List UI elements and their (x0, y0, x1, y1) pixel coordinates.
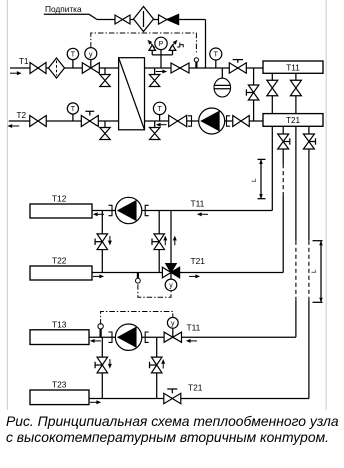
svg-text:Т21: Т21 (191, 256, 206, 266)
control valve M1 with actuator (82, 63, 91, 74)
filter T1 strainer (49, 58, 65, 78)
svg-text:L: L (311, 269, 318, 273)
valve riser return circuit2 (278, 134, 289, 142)
balancing valve branch left circuit3 (97, 357, 108, 365)
gate valve T2 (81, 116, 90, 127)
wire makeup drop (205, 20, 207, 69)
sensor T secondary supply (215, 60, 217, 68)
valve riser supply circuit3 (290, 80, 301, 88)
svg-text:Р: Р (159, 41, 164, 48)
balancing valve branch A (154, 234, 165, 242)
wire branch left circuit2 (101, 211, 103, 273)
node dimension L circuit2 riser (260, 159, 262, 198)
sensor T on T1 (72, 60, 74, 68)
wire T1 supply (10, 67, 119, 69)
svg-text:Т11: Т11 (191, 198, 205, 208)
sensor ESMU supply (195, 62, 197, 68)
load box T13 (30, 330, 89, 345)
node dimension L circuit3 risers (320, 241, 322, 303)
wire flow arrow return (161, 124, 167, 126)
wire secondary return (145, 120, 264, 122)
valve T1 inlet (30, 63, 38, 74)
svg-text:Т12: Т12 (52, 194, 67, 204)
wire riser return circuit2 (282, 126, 284, 164)
pump main circulation (188, 116, 192, 126)
drain valve T2 (104, 121, 106, 128)
wire circuit3 supply (89, 336, 296, 338)
heat exchanger HX (119, 58, 145, 130)
wire riser supply circuit3 (295, 73, 297, 240)
filter makeup strainer (134, 7, 154, 32)
svg-text:L: L (251, 178, 258, 182)
wire secondary supply (145, 67, 264, 69)
wire control dash-dot M1 to sensor (91, 33, 197, 54)
valve riser supply circuit2 (267, 80, 278, 88)
svg-text:Т: Т (157, 106, 162, 113)
svg-text:Т23: Т23 (52, 380, 67, 390)
balancing valve branch left circuit2 (97, 234, 108, 242)
drain valve T1 (104, 68, 106, 75)
wire riser supply circuit2 (271, 73, 273, 210)
valve secondary supply (171, 63, 180, 73)
wire flow arrow supply (156, 71, 163, 73)
svg-text:Т11: Т11 (286, 63, 300, 72)
pump circuit2 (109, 205, 113, 215)
sensor return circuit2 (137, 273, 139, 279)
svg-text:у: у (171, 321, 175, 328)
balancing valve branch C (151, 357, 162, 365)
svg-text:Т22: Т22 (52, 256, 67, 266)
gate valve before T11 header (229, 63, 238, 73)
wire riser return circuit3 (308, 126, 310, 240)
svg-text:Т2: Т2 (17, 111, 27, 120)
wire makeup step (89, 14, 97, 19)
valve makeup shutoff (115, 15, 123, 24)
pump circuit3 (109, 332, 113, 342)
svg-text:Т: Т (214, 52, 219, 59)
svg-text:Т13: Т13 (52, 319, 67, 329)
svg-text:Подпитка: Подпитка (45, 4, 82, 14)
drain valve after HX (154, 68, 156, 75)
wire control dash-dot circuit3 (101, 312, 173, 325)
gate valve circuit3 return (164, 393, 173, 403)
valve return before pump (169, 115, 178, 126)
sensor T on T2 (72, 114, 74, 121)
sensor supply circuit3 (100, 329, 102, 338)
svg-text:Т11: Т11 (187, 323, 201, 333)
three-way valve circuit2 with actuator (162, 267, 171, 278)
svg-text:Т21: Т21 (286, 116, 301, 125)
load box T23 (30, 390, 89, 405)
wire branch left circuit3 (101, 337, 103, 398)
wire branch C circuit3 (156, 337, 158, 398)
wire branch A circuit2 (158, 211, 160, 273)
svg-text:Т: Т (71, 52, 76, 59)
wire branch B to 3-way (170, 211, 172, 265)
header box T11 (263, 61, 323, 73)
wire T2 return (9, 120, 119, 122)
svg-text:у: у (169, 283, 173, 290)
sensor T secondary return (159, 115, 161, 121)
drain valve return (154, 121, 156, 128)
check valve makeup (159, 15, 167, 24)
expansion vessel (221, 68, 223, 78)
svg-text:Т1: Т1 (19, 57, 29, 66)
wire control dash-dot circuit2 (138, 284, 171, 297)
load box T22 (30, 266, 92, 280)
svg-text:у: у (89, 51, 93, 58)
control valve circuit3 with actuator (164, 332, 173, 342)
svg-text:Т21: Т21 (188, 383, 203, 393)
wire circuit3 return (89, 398, 309, 400)
wire circuit2 supply (92, 210, 272, 212)
safety group with pressure gauge P (160, 55, 162, 68)
wire bypass with balancing valve (253, 68, 255, 121)
valve riser return circuit3 (303, 134, 314, 142)
node caption (6, 413, 342, 445)
wire circuit2 return (92, 272, 283, 274)
load box T12 (30, 204, 92, 218)
valve T2 (30, 116, 38, 127)
wire makeup pipe (97, 19, 206, 21)
header box T21 (263, 114, 323, 127)
svg-text:Т: Т (71, 106, 76, 113)
valve after pump (233, 116, 241, 127)
